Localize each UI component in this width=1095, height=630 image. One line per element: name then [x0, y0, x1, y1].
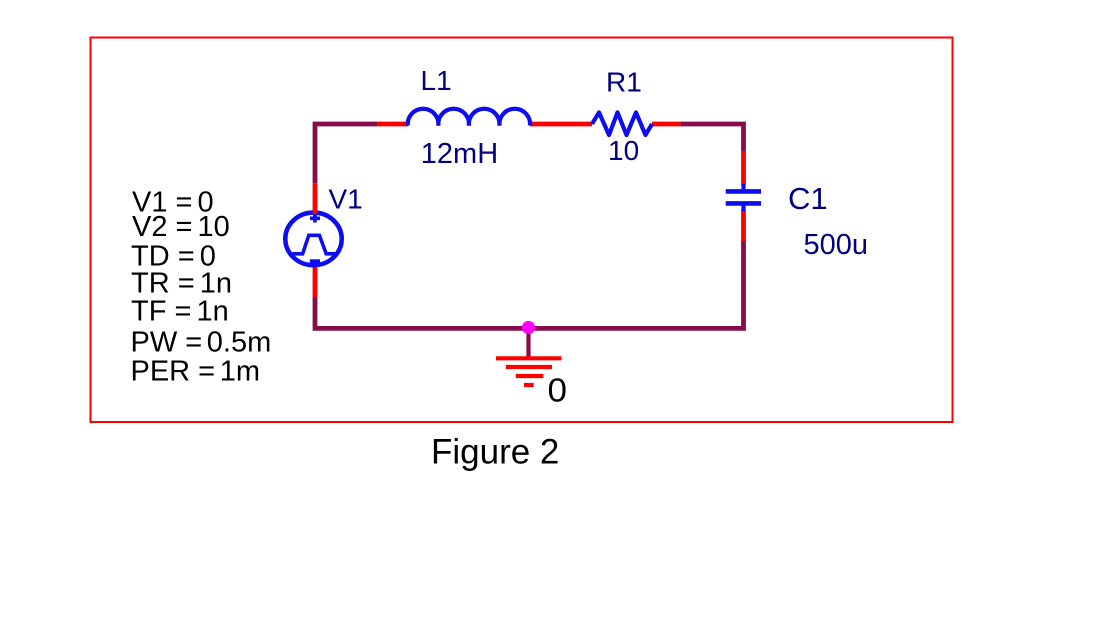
- svg-text:PER = 1m: PER = 1m: [131, 355, 260, 387]
- svg-text:TR = 1n: TR = 1n: [131, 267, 232, 299]
- svg-text:R1: R1: [606, 67, 642, 98]
- svg-text:Figure 2: Figure 2: [431, 433, 559, 472]
- svg-text:0: 0: [548, 372, 568, 409]
- svg-text:10: 10: [608, 135, 639, 166]
- svg-text:V2 = 10: V2 = 10: [132, 211, 230, 243]
- svg-text:C1: C1: [788, 181, 828, 216]
- svg-text:PW = 0.5m: PW = 0.5m: [131, 327, 272, 359]
- svg-text:12mH: 12mH: [421, 138, 498, 170]
- svg-text:V1: V1: [329, 184, 363, 215]
- svg-text:500u: 500u: [804, 229, 869, 261]
- svg-text:TF = 1n: TF = 1n: [131, 296, 229, 328]
- svg-text:L1: L1: [421, 65, 452, 96]
